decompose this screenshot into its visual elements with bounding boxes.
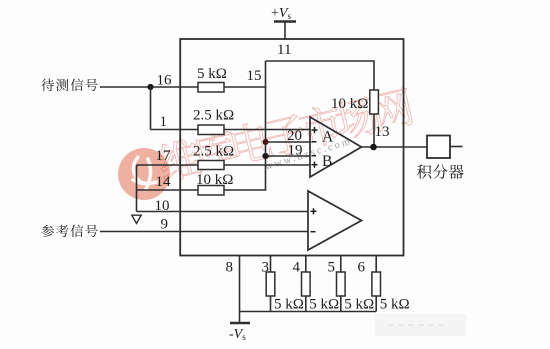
wire +Vs to box: [284, 22, 286, 40]
wire feedback top: [266, 61, 375, 90]
marks B - +: [312, 156, 318, 168]
resistor 10k feedback: [370, 90, 379, 114]
svg-text:5: 5: [328, 260, 336, 276]
watermark red text: [156, 85, 415, 184]
svg-text:11: 11: [277, 42, 291, 58]
integrator box: [427, 136, 450, 159]
resistor 5k (pin16): [198, 83, 224, 93]
wire A- input: [266, 141, 311, 143]
resistor 5k bottom #3: [337, 272, 346, 296]
watermark red stamp: [118, 148, 170, 200]
resistor 2.5k (pin17): [198, 161, 224, 170]
node B-: [262, 153, 268, 159]
resistor 10k (pin14): [198, 186, 224, 196]
-Vs supply bar: [230, 322, 250, 324]
wire output to integrator: [362, 146, 428, 148]
svg-text:5 kΩ: 5 kΩ: [344, 297, 374, 313]
svg-text:17: 17: [156, 148, 172, 164]
svg-text:10 kΩ: 10 kΩ: [196, 172, 233, 188]
wire input 9: [100, 231, 308, 233]
label daice xinhao: [41, 79, 54, 91]
arrow common terminal: [132, 215, 141, 223]
svg-text:14: 14: [156, 174, 172, 190]
marks op2 + -: [311, 208, 317, 232]
wire feedback to output node: [373, 114, 375, 147]
wire r1 to node15: [224, 86, 266, 88]
label jifenqi: [417, 165, 431, 179]
node junction 16: [147, 84, 153, 90]
wire central vertical node: [265, 61, 267, 190]
resistor 5k bottom #1: [266, 272, 275, 296]
wire input 10: [137, 211, 309, 213]
svg-text:5 kΩ: 5 kΩ: [380, 297, 410, 313]
wire input 14: [137, 189, 199, 191]
svg-text:5 kΩ: 5 kΩ: [197, 66, 227, 82]
wire B- input: [266, 155, 311, 157]
op-amp 2 triangle: [308, 191, 362, 250]
wire input 1: [151, 129, 199, 131]
svg-text:9: 9: [161, 217, 169, 233]
svg-text:5 kΩ: 5 kΩ: [274, 297, 304, 313]
svg-text:1: 1: [160, 114, 168, 130]
bus wire bottom: [240, 311, 377, 313]
wire r4 to B- vertical: [224, 189, 266, 191]
wire 16 down to 1: [150, 87, 152, 130]
wire pin3 stub: [270, 256, 272, 273]
wire pin8 to -Vs: [239, 256, 241, 324]
svg-text:8: 8: [226, 260, 234, 276]
svg-text:2.5 kΩ: 2.5 kΩ: [193, 144, 234, 160]
svg-text:16: 16: [157, 73, 173, 89]
wire input 17: [137, 164, 199, 166]
svg-text:2.5 kΩ: 2.5 kΩ: [193, 108, 234, 124]
+Vs supply: [274, 20, 296, 22]
wire pin5 stub: [340, 256, 342, 273]
wire r3 to B+: [224, 164, 310, 166]
svg-text:5 kΩ: 5 kΩ: [309, 297, 339, 313]
label cankao xinhao: [41, 225, 54, 237]
svg-text:6: 6: [358, 260, 366, 276]
resistor 2.5k (pin1): [198, 125, 224, 135]
node A-: [263, 139, 269, 145]
svg-text:B: B: [322, 153, 332, 170]
resistor 5k bottom #2: [302, 272, 311, 296]
wire common left vertical: [136, 165, 138, 212]
op-amp A/B triangle: [310, 117, 362, 177]
wire r2 to A+: [224, 129, 310, 131]
wire input 16: [100, 86, 198, 88]
svg-text:A: A: [322, 128, 334, 145]
svg-text:13: 13: [375, 124, 390, 140]
marks A + -: [312, 127, 318, 142]
wire integrator out: [450, 146, 463, 148]
IC box U1: [180, 39, 403, 256]
node output 13: [370, 144, 377, 151]
wire pin6 stub: [375, 256, 377, 273]
svg-text:10 kΩ: 10 kΩ: [331, 96, 368, 112]
svg-text:15: 15: [247, 68, 262, 84]
wire pin4 stub: [305, 256, 307, 273]
svg-text:4: 4: [293, 260, 301, 276]
resistor 5k bottom #4: [372, 272, 381, 296]
watermark cover box bottom right: [375, 314, 466, 336]
